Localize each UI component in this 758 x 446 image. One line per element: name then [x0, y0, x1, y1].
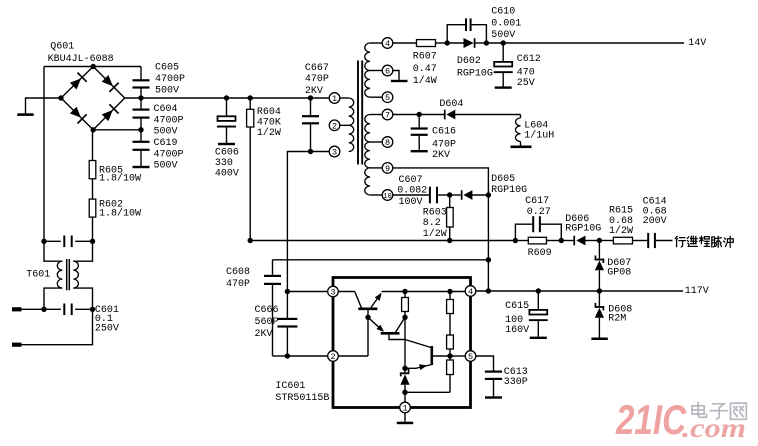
capacitor C617	[515, 224, 532, 240]
capacitor C605	[140, 67, 142, 81]
svg-text:2: 2	[332, 121, 337, 131]
AC line earth bar	[26, 98, 62, 114]
svg-text:470P: 470P	[305, 74, 329, 85]
transistor Q2 IC	[368, 317, 383, 330]
svg-text:9: 9	[385, 164, 390, 174]
svg-text:470P: 470P	[432, 139, 456, 150]
svg-text:330P: 330P	[504, 377, 528, 388]
diode D606	[561, 240, 573, 242]
svg-text:560P: 560P	[255, 317, 279, 328]
svg-text:R607: R607	[413, 52, 437, 63]
svg-text:0.27: 0.27	[527, 207, 551, 218]
svg-text:5: 5	[385, 93, 390, 103]
diode D607	[598, 241, 600, 259]
svg-text:2: 2	[330, 352, 335, 362]
svg-text:1/1uH: 1/1uH	[524, 130, 554, 142]
svg-text:Q601: Q601	[50, 42, 74, 53]
wire top rail	[44, 66, 141, 68]
svg-text:470: 470	[517, 67, 535, 78]
node 4	[370, 42, 382, 44]
svg-text:D604: D604	[439, 99, 463, 110]
svg-text:2KV: 2KV	[255, 329, 273, 340]
svg-text:6: 6	[385, 67, 390, 77]
svg-text:8: 8	[385, 138, 390, 148]
svg-text:GP08: GP08	[607, 267, 631, 278]
svg-text:C615: C615	[505, 301, 529, 312]
pin 5	[465, 351, 476, 362]
resistor R605	[92, 130, 94, 161]
svg-text:C616: C616	[432, 127, 456, 138]
wire flyback rail	[250, 240, 515, 242]
capacitor C615	[537, 291, 539, 310]
svg-text:117V: 117V	[685, 286, 709, 297]
svg-text:C619: C619	[154, 138, 178, 149]
secondary winding bottom	[365, 115, 370, 143]
ground pin 1	[404, 413, 406, 422]
svg-text:470P: 470P	[226, 279, 250, 290]
resistor R615	[599, 240, 613, 242]
pin 3	[328, 286, 339, 297]
svg-text:8.2: 8.2	[423, 218, 441, 229]
capacitor C612	[502, 43, 504, 62]
svg-text:100: 100	[505, 315, 523, 326]
svg-text:100V: 100V	[399, 197, 423, 208]
capacitor C608	[272, 260, 274, 275]
diode D605	[450, 194, 461, 196]
svg-text:4700P: 4700P	[155, 74, 185, 85]
svg-text:21IC: 21IC	[615, 396, 686, 443]
svg-text:0.001: 0.001	[491, 18, 521, 29]
AC input terminal 1	[21, 308, 44, 310]
capacitor C607	[393, 194, 429, 196]
transistor Q1 IC	[358, 307, 377, 310]
wire pin3 tee	[285, 289, 290, 294]
svg-text:1.8/10W: 1.8/10W	[99, 207, 141, 219]
wire Ra bottom vertical	[404, 317, 406, 368]
capacitor C606	[224, 95, 229, 100]
svg-text:7: 7	[385, 111, 390, 121]
secondary winding top	[365, 43, 370, 71]
capacitor C604	[140, 98, 142, 110]
svg-text:14V: 14V	[688, 38, 706, 49]
node 10	[370, 194, 382, 196]
capacitor C666	[277, 318, 297, 320]
resistor IC Rb2	[447, 335, 454, 349]
svg-text:C617: C617	[525, 196, 549, 207]
wire left AC vertical	[43, 67, 45, 242]
svg-text:C612: C612	[517, 54, 541, 65]
T601 top capacitor	[41, 239, 46, 244]
wire node3 vertical	[287, 152, 310, 319]
watermark dianziwang	[692, 402, 707, 417]
diode D604	[444, 110, 446, 120]
IC601 box	[333, 278, 471, 408]
ground D608	[591, 338, 607, 341]
wire bridge bottom to cap chain	[93, 129, 141, 131]
svg-text:C606: C606	[215, 148, 239, 159]
svg-text:3: 3	[332, 148, 337, 158]
svg-text:RGP10G: RGP10G	[565, 224, 601, 235]
pin 1	[400, 402, 411, 413]
wire D605 down to 117V rail	[487, 195, 489, 291]
resistor R609	[515, 240, 528, 242]
wire Rc to zener node	[405, 391, 450, 393]
svg-text:500V: 500V	[155, 85, 179, 96]
svg-text:2KV: 2KV	[432, 150, 450, 161]
svg-text:C605: C605	[155, 63, 179, 74]
svg-text:500V: 500V	[491, 30, 515, 41]
svg-text:R2M: R2M	[608, 313, 626, 324]
wire 14V rail	[486, 42, 684, 44]
capacitor C614	[647, 233, 649, 248]
capacitor C667	[308, 95, 313, 100]
svg-text:1/2W: 1/2W	[609, 225, 633, 237]
transistor Q3 IC	[430, 346, 433, 365]
svg-text:1.8/10W: 1.8/10W	[99, 173, 141, 185]
wire node9	[393, 168, 489, 195]
wire 117V rail	[476, 290, 683, 292]
svg-text:RGP10G: RGP10G	[491, 185, 527, 196]
resistor IC Rc	[449, 356, 451, 360]
svg-text:1/4W: 1/4W	[413, 75, 437, 87]
node 8	[370, 141, 382, 143]
svg-text:4700P: 4700P	[154, 149, 184, 160]
resistor IC Rb1	[449, 292, 451, 300]
svg-text:RGP10G: RGP10G	[457, 68, 493, 79]
wire node4 to R607	[393, 42, 417, 44]
node 9	[370, 167, 382, 169]
svg-text:500V: 500V	[154, 161, 178, 172]
pin 2	[328, 351, 339, 362]
diode D608	[598, 291, 600, 306]
bridge rectifier Q601	[61, 67, 125, 130]
zener diode IC	[404, 368, 406, 372]
svg-text:.com: .com	[682, 413, 746, 443]
svg-text:4700P: 4700P	[154, 115, 184, 126]
svg-text:C666: C666	[255, 305, 279, 316]
node 1	[329, 93, 340, 104]
node 2	[329, 120, 340, 131]
pin 4	[465, 286, 476, 297]
svg-text:IC601: IC601	[275, 381, 305, 392]
resistor R602	[92, 179, 94, 199]
resistor R604	[248, 95, 253, 100]
primary winding	[349, 98, 354, 125]
capacitor C613	[476, 356, 494, 371]
svg-text:4: 4	[385, 39, 390, 49]
svg-text:250V: 250V	[95, 323, 119, 334]
svg-text:5: 5	[468, 352, 473, 362]
transformer core	[357, 61, 359, 165]
resistor R607	[417, 40, 436, 47]
svg-text:400V: 400V	[215, 169, 239, 180]
svg-text:330: 330	[215, 158, 233, 169]
svg-text:C604: C604	[154, 104, 178, 115]
AC input terminal 2	[21, 309, 93, 344]
svg-text:3: 3	[330, 288, 335, 298]
node 7	[370, 114, 382, 116]
wire IC top rail	[382, 291, 466, 293]
svg-text:C608: C608	[226, 267, 250, 278]
wire node7	[393, 114, 419, 116]
svg-text:R603: R603	[423, 208, 447, 219]
svg-text:2KV: 2KV	[305, 86, 323, 97]
svg-text:C667: C667	[305, 63, 329, 74]
capacitor C616	[418, 115, 420, 129]
svg-text:1: 1	[332, 94, 337, 104]
svg-text:160V: 160V	[505, 325, 529, 336]
svg-text:KBU4JL-6088: KBU4JL-6088	[48, 54, 114, 65]
svg-text:25V: 25V	[517, 78, 535, 89]
wire C608 snubber line	[273, 259, 489, 261]
svg-text:R609: R609	[528, 248, 552, 259]
svg-text:10: 10	[383, 193, 391, 201]
wire R602 to T601	[92, 217, 94, 241]
node 6	[370, 70, 382, 72]
svg-text:1/2W: 1/2W	[257, 127, 281, 139]
diode D602	[447, 42, 463, 44]
wire B+ mid rail	[125, 97, 330, 99]
transformer T601	[44, 241, 62, 261]
wire pin3 internal	[338, 291, 354, 293]
capacitor C601	[41, 307, 46, 312]
capacitor C619	[140, 130, 142, 142]
resistor IC Ra	[404, 292, 406, 298]
inductor L604	[520, 115, 522, 119]
svg-text:D605: D605	[491, 174, 515, 185]
node 3	[329, 146, 340, 157]
svg-text:C610: C610	[491, 7, 515, 18]
svg-text:500V: 500V	[154, 127, 178, 138]
wire Q1 collector to pin2	[367, 317, 369, 356]
svg-text:R604: R604	[257, 107, 281, 118]
ground node 6	[393, 71, 399, 80]
capacitor C610	[447, 25, 465, 43]
wire pin2 tee	[285, 353, 290, 358]
svg-text:STR50115B: STR50115B	[275, 393, 329, 404]
svg-text:1: 1	[402, 404, 407, 414]
svg-text:4: 4	[468, 287, 473, 297]
label flyback pulse (Chinese)	[675, 236, 685, 247]
resistor R603	[449, 195, 451, 208]
node 5	[370, 96, 382, 98]
svg-text:T601: T601	[26, 269, 50, 280]
svg-text:1/2W: 1/2W	[423, 228, 447, 240]
svg-text:0.47: 0.47	[413, 64, 437, 75]
svg-text:0.082: 0.082	[397, 186, 427, 197]
svg-text:200V: 200V	[643, 216, 667, 227]
svg-text:C607: C607	[399, 175, 423, 186]
svg-text:D602: D602	[457, 56, 481, 67]
